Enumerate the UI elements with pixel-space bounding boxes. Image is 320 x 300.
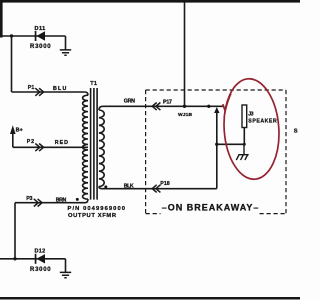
chassis ground below speaker [236,144,248,160]
speaker J3 body [242,105,247,128]
wire: D11 to ground drop [65,36,67,49]
svg-text:P18: P18 [160,181,169,187]
node: junction dot at left rail / D11 wire [10,34,13,37]
annotation: red pen hook at ellipse start [223,94,231,111]
connector P3 chevrons [34,199,42,207]
svg-text:OUTPUT XFMR: OUTPUT XFMR [68,213,117,219]
svg-text:P2: P2 [27,139,34,145]
node: junction dot [207,105,210,108]
wire: P2 RED run to T1 primary tap [13,146,88,148]
diode D11 [35,31,37,41]
page border left [0,0,3,38]
node: dot at BLK / secondary bottom [104,185,107,188]
wire: left rail B+ [11,36,13,92]
svg-text:D12: D12 [35,248,46,254]
page border bottom [0,297,300,300]
connector P1 chevrons [35,88,43,96]
node: junction dot [183,105,186,108]
wire: D12 feed [0,258,66,260]
connector P18 chevrons [152,185,160,193]
svg-text:WJ1B: WJ1B [178,112,192,118]
wire: vertical from top edge [184,3,186,107]
wire: rail P3 down to D12 [14,203,16,259]
svg-text:R3000: R3000 [30,44,51,50]
svg-text:P/N 0049969000: P/N 0049969000 [68,206,126,212]
wire: speaker bottom run [217,143,245,145]
transformer T1 secondary winding [99,106,104,188]
svg-text:GRN: GRN [124,99,135,105]
wire: P1 BLU run into T1 primary top [12,92,89,95]
svg-text:–ON BREAKAWAY–: –ON BREAKAWAY– [162,202,259,212]
node B+ arrow [10,125,16,134]
svg-text:BLU: BLU [53,86,66,92]
wire: speaker branch vertical [216,112,218,189]
svg-text:BLK: BLK [124,183,134,189]
svg-text:RED: RED [55,140,68,146]
wire: P3 BRN run from T1 primary bottom [15,199,88,203]
svg-text:B+: B+ [16,128,23,134]
wire: GRN secondary top run to speaker area [103,105,224,107]
node: junction dot [215,143,218,146]
annotation: red ellipse around J3 speaker [221,77,282,181]
connector P2 chevrons [35,144,43,152]
svg-text:R3000: R3000 [30,267,51,273]
node: dot at BRN / primary bottom [76,198,79,201]
connector P17 chevrons [152,103,160,111]
connector: up arrow into GRN wire [214,107,219,113]
transformer T1 core [91,88,98,200]
transformer T1 primary winding [83,95,88,199]
svg-text:P17: P17 [163,100,172,106]
svg-text:D11: D11 [35,26,46,32]
svg-text:BRN: BRN [56,198,67,204]
ground (earth) for D11 [60,50,71,55]
svg-text:P1: P1 [28,85,35,91]
svg-text:J3: J3 [248,112,253,118]
svg-text:SPEAKER: SPEAKER [248,119,277,125]
dashed breakaway box [146,90,286,214]
ground (earth) for D12 [60,272,71,277]
svg-text:S: S [294,129,298,135]
diode D12 [35,254,37,264]
wire: up to speaker J3 [243,128,245,145]
node: junction dot [243,143,246,146]
svg-text:P3: P3 [26,196,32,202]
wire: top feed to D11 [3,35,66,37]
wire: D12 to ground drop [65,259,67,272]
node: junction dot at D12 wire [13,257,16,260]
svg-text:T1: T1 [90,81,97,87]
wire: BLK secondary bottom run / P18 [103,188,217,190]
page border top [0,0,300,3]
